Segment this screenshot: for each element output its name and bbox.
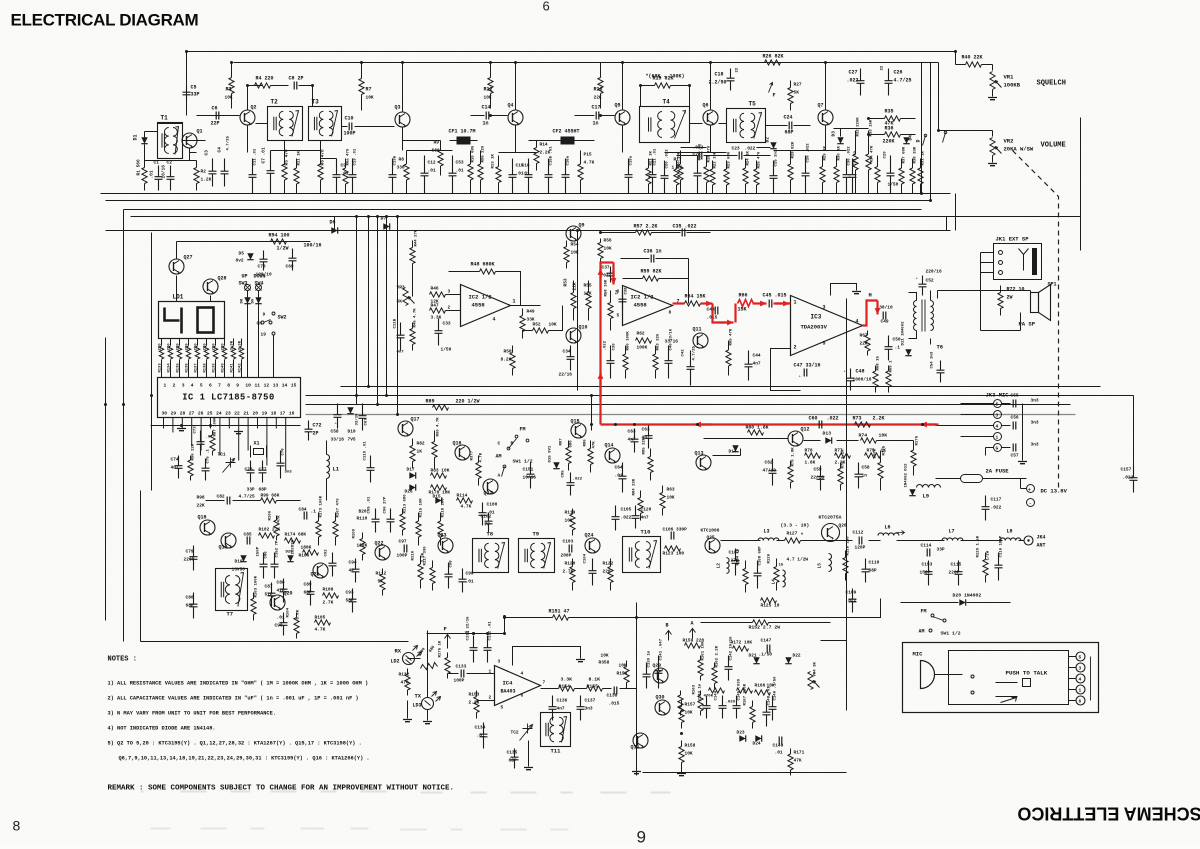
svg-text:R58 10K: R58 10K	[605, 279, 609, 296]
label 2A FUSE	[986, 468, 1010, 475]
mic box inner	[949, 651, 1069, 705]
transistor	[508, 110, 523, 125]
label 220	[195, 343, 199, 351]
svg-text:R3: R3	[226, 87, 232, 93]
capacitor	[480, 723, 488, 749]
label 680	[570, 440, 574, 448]
svg-text:R67: R67	[860, 333, 868, 339]
label 33/16	[665, 339, 679, 345]
wire	[688, 259, 690, 304]
resistor	[271, 239, 287, 244]
svg-text:C139 1n: C139 1n	[648, 650, 652, 667]
label R96 22K	[192, 443, 196, 460]
label .022	[693, 145, 704, 151]
svg-text:1: 1	[996, 435, 999, 441]
label Q7	[818, 103, 824, 109]
capacitor	[847, 369, 855, 391]
label 3n3	[285, 471, 293, 475]
wire	[515, 126, 517, 153]
label 12K	[584, 291, 592, 297]
svg-text:4n7: 4n7	[641, 515, 649, 521]
label C9	[341, 163, 347, 169]
wire	[326, 479, 328, 501]
label 4n7	[171, 465, 179, 471]
label C16a	[567, 155, 571, 165]
transformer	[309, 107, 342, 141]
inductor	[1000, 538, 1021, 541]
label C148 .01	[768, 686, 772, 706]
svg-text:C141 .047: C141 .047	[660, 638, 664, 660]
capacitor	[567, 473, 575, 496]
label X1	[254, 441, 260, 447]
svg-text:R151 47: R151 47	[549, 609, 570, 615]
label 15K	[738, 307, 747, 313]
resistor	[402, 509, 404, 515]
label JK3 MIC	[986, 392, 1010, 399]
wire	[981, 272, 994, 274]
svg-text:C10: C10	[345, 116, 354, 122]
label B	[666, 623, 669, 629]
potentiometer wiper	[408, 297, 415, 304]
wire	[176, 276, 178, 302]
wire	[1020, 313, 1022, 331]
capacitor	[459, 569, 467, 593]
junction	[486, 632, 489, 635]
svg-text:C146 .1/50: C146 .1/50	[773, 676, 778, 701]
junction	[503, 615, 506, 618]
transistor	[818, 110, 833, 125]
svg-text:.022: .022	[847, 78, 859, 84]
label R173 100K	[320, 495, 324, 517]
svg-text:10K: 10K	[484, 95, 492, 101]
wire	[326, 441, 328, 455]
wire	[151, 431, 153, 491]
label C25 2n2	[775, 149, 779, 166]
svg-text:1: 1	[1079, 688, 1082, 694]
wire	[992, 65, 994, 71]
label .01	[516, 171, 524, 177]
JK3 pin 5	[994, 400, 1002, 408]
svg-text:2: 2	[173, 383, 176, 389]
label 1.8K	[805, 460, 816, 466]
svg-text:D21: D21	[749, 653, 757, 659]
svg-text:R137: R137	[195, 363, 199, 373]
capacitor	[982, 496, 990, 521]
resistor lead	[681, 723, 683, 729]
svg-text:R128 230: R128 230	[847, 536, 851, 556]
capacitor	[397, 323, 405, 351]
wire	[992, 156, 994, 163]
svg-text:33/16: 33/16	[331, 437, 345, 443]
label R139	[213, 363, 217, 373]
capacitor	[955, 561, 963, 586]
resistor R66 15K red	[738, 300, 754, 307]
wire	[901, 134, 916, 136]
resistor	[662, 486, 664, 493]
svg-text:1: 1	[164, 383, 167, 389]
label C76	[245, 467, 253, 473]
mic connector circles	[1076, 652, 1085, 661]
svg-text:4.7 1/2W: 4.7 1/2W	[787, 557, 809, 563]
svg-text:-: -	[1029, 501, 1033, 508]
wire	[721, 540, 761, 542]
svg-text:C49: C49	[881, 319, 889, 325]
svg-text:C85: C85	[244, 532, 252, 538]
resistor	[440, 141, 442, 151]
svg-text:6: 6	[209, 383, 212, 389]
label R99 68K	[261, 493, 280, 499]
resistor	[714, 663, 716, 668]
svg-text:10K: 10K	[879, 433, 888, 439]
wire	[689, 86, 691, 107]
svg-text:CF2 455HT: CF2 455HT	[553, 129, 580, 135]
label 3.3K	[431, 315, 442, 321]
label VR4 3K	[814, 661, 818, 676]
label R47	[431, 303, 439, 309]
label D25	[286, 551, 294, 555]
wire	[275, 418, 277, 429]
svg-text:Q30: Q30	[656, 695, 665, 701]
resistor	[1000, 286, 1002, 293]
label C100	[487, 502, 498, 508]
svg-text:C55: C55	[1011, 393, 1019, 399]
capacitor	[687, 351, 695, 386]
label 10K	[225, 95, 233, 101]
svg-text:1n: 1n	[593, 121, 599, 127]
svg-text:C13 .01: C13 .01	[354, 148, 358, 165]
label SW2	[278, 315, 287, 321]
wire	[321, 158, 337, 160]
label D15	[433, 494, 441, 500]
resistor body	[911, 450, 916, 466]
red wire	[601, 263, 614, 425]
label R50	[504, 349, 512, 355]
label C53	[456, 160, 464, 166]
label 22	[736, 67, 740, 72]
transistor	[270, 595, 285, 610]
resistor	[432, 561, 434, 568]
label 5K	[794, 90, 800, 96]
svg-text:10K: 10K	[225, 95, 233, 101]
label C144	[715, 690, 719, 700]
svg-text:51P: 51P	[265, 592, 273, 598]
label *(68K - 100K)	[646, 74, 685, 80]
label 4n7	[397, 351, 405, 355]
label 4.7K	[315, 627, 326, 633]
resistor	[966, 62, 982, 67]
label C109	[846, 590, 857, 596]
label R69 1	[890, 360, 894, 373]
label R158	[685, 743, 696, 749]
svg-text:4: 4	[856, 319, 859, 325]
svg-text:B20: B20	[359, 509, 367, 515]
label 1.2K	[201, 177, 212, 183]
capacitor	[349, 159, 357, 194]
label D5	[239, 251, 245, 257]
resistor	[568, 441, 570, 448]
label 150P	[920, 570, 931, 576]
svg-text:Q14: Q14	[605, 443, 614, 449]
wire	[515, 126, 517, 141]
resistor body	[430, 568, 435, 584]
svg-text:TC2: TC2	[511, 730, 519, 736]
svg-text:10K: 10K	[571, 250, 579, 256]
label Q10	[579, 325, 588, 331]
label L3	[764, 529, 770, 535]
label C15	[516, 163, 524, 169]
label C137	[585, 698, 596, 704]
label 220/16	[926, 269, 943, 275]
label L6	[885, 525, 891, 531]
svg-text:150P: 150P	[920, 570, 931, 576]
svg-text:.022: .022	[991, 505, 1002, 511]
label D10	[348, 429, 356, 435]
ground	[677, 774, 686, 776]
svg-text:C102: C102	[481, 514, 492, 520]
svg-text:D4: D4	[908, 135, 914, 141]
svg-text:R35: R35	[885, 109, 894, 115]
resistor body	[878, 463, 883, 479]
resistor lead	[877, 183, 879, 194]
label R44 27K	[415, 229, 419, 246]
label D21	[749, 653, 757, 659]
label R10 680	[472, 145, 476, 162]
red arrow	[611, 271, 617, 285]
bus wire	[341, 386, 1101, 388]
wire	[794, 125, 811, 127]
svg-text:330: 330	[397, 165, 405, 171]
junction	[639, 84, 642, 87]
svg-text:10K: 10K	[549, 322, 557, 328]
svg-text:R32 220K: R32 220K	[857, 117, 861, 137]
svg-text:120P: 120P	[855, 545, 866, 551]
svg-text:C110: C110	[869, 560, 880, 566]
bus wire	[921, 63, 923, 194]
wire	[427, 633, 505, 635]
label 1n	[483, 121, 489, 127]
bus wire	[234, 62, 939, 64]
svg-text:C31 1n: C31 1n	[854, 150, 858, 165]
label 22K	[572, 282, 578, 290]
label R79 1.8K	[792, 447, 796, 467]
mic box outline	[903, 643, 1099, 713]
resistor body	[194, 168, 199, 184]
capacitor	[352, 559, 360, 583]
label C120	[641, 507, 652, 513]
svg-text:R127: R127	[787, 531, 798, 537]
svg-text:220: 220	[222, 343, 226, 351]
resistor	[776, 559, 778, 567]
label SP1	[1048, 282, 1057, 288]
label R163	[693, 684, 697, 694]
label R54	[571, 242, 579, 248]
label ANT	[1037, 543, 1046, 549]
label D17	[407, 467, 415, 473]
svg-text:68P: 68P	[869, 568, 877, 574]
diode	[240, 555, 246, 561]
label 33P	[247, 487, 255, 493]
svg-text:3.3K: 3.3K	[561, 677, 573, 683]
resistor body	[674, 169, 679, 185]
diode	[409, 484, 415, 490]
bus wire	[356, 217, 358, 396]
label 33P	[937, 547, 945, 553]
label SW3	[239, 281, 248, 287]
svg-text:C15b .01: C15b .01	[549, 146, 554, 166]
red wire	[863, 301, 878, 326]
wire	[869, 540, 881, 542]
wire	[849, 599, 881, 618]
label C31 1n	[854, 150, 858, 165]
svg-text:R30 1K: R30 1K	[838, 145, 842, 160]
junction	[489, 114, 492, 117]
svg-text:.01: .01	[277, 615, 285, 621]
wire	[427, 631, 429, 698]
label R132	[399, 672, 410, 678]
label 47K	[593, 441, 597, 449]
diode	[909, 489, 915, 495]
svg-text:R55: R55	[584, 283, 592, 289]
svg-text:R82: R82	[417, 441, 425, 447]
label C139 1n	[648, 650, 652, 667]
wire	[937, 291, 939, 299]
resistor	[239, 346, 243, 359]
svg-text:R126: R126	[768, 553, 772, 563]
label 1000/16	[853, 377, 872, 383]
resistor lead	[790, 180, 792, 194]
wire	[151, 425, 301, 427]
label .022	[573, 478, 583, 482]
junction	[696, 423, 699, 426]
red arrow	[695, 422, 713, 428]
resistor	[885, 132, 901, 137]
capacitor	[883, 312, 886, 320]
svg-text:+: +	[1028, 487, 1032, 494]
label 1SV50	[232, 567, 246, 573]
resistor lead	[478, 479, 480, 486]
svg-text:R94 100: R94 100	[269, 233, 290, 239]
capacitor	[333, 159, 341, 194]
svg-text:R172 10K: R172 10K	[731, 640, 753, 646]
resistor body	[698, 660, 703, 676]
capacitor	[754, 561, 762, 589]
svg-text:C6: C6	[212, 106, 218, 112]
JK3 pin G	[994, 444, 1002, 452]
resistor	[296, 159, 298, 169]
label C141 .047	[660, 638, 664, 660]
diode	[244, 297, 250, 303]
svg-text:FM: FM	[520, 427, 526, 433]
svg-text:D10: D10	[348, 429, 356, 435]
svg-text:FM: FM	[921, 609, 927, 615]
label IC3	[811, 314, 822, 321]
diode	[837, 137, 843, 143]
svg-text:IC2 1/2: IC2 1/2	[631, 294, 654, 301]
label T10	[641, 529, 651, 536]
resistor	[190, 456, 192, 461]
label 5K	[397, 299, 403, 305]
resistor body	[875, 167, 880, 183]
label Q3	[395, 105, 401, 111]
svg-text:4: 4	[1079, 677, 1082, 683]
resistor lead	[335, 537, 337, 546]
resistor lead	[728, 366, 730, 376]
junction	[104, 403, 107, 406]
svg-text:R162 2.2K: R162 2.2K	[716, 645, 720, 667]
svg-text:C77: C77	[259, 467, 267, 473]
junction	[246, 84, 249, 87]
resistor	[478, 456, 480, 463]
svg-text:220P: 220P	[949, 570, 960, 576]
svg-text:C33: C33	[443, 321, 451, 327]
label Q6	[703, 103, 709, 109]
label R76 2.2K	[842, 449, 846, 469]
resistor body	[648, 457, 653, 473]
resistor	[636, 338, 652, 343]
capacitor	[183, 87, 191, 101]
label R85 22K	[643, 437, 647, 454]
junction	[514, 61, 517, 64]
label C107	[729, 550, 740, 556]
wire	[206, 339, 208, 346]
svg-text:R109: R109	[353, 528, 357, 538]
wire	[241, 339, 243, 346]
resistor body	[726, 350, 731, 366]
svg-text:68P: 68P	[186, 603, 194, 609]
label R67	[860, 333, 868, 339]
svg-text:10K: 10K	[601, 653, 609, 659]
junction	[150, 394, 153, 397]
label C138	[607, 693, 618, 699]
label 10K	[549, 322, 557, 328]
wire	[869, 118, 885, 120]
svg-text:R72 10: R72 10	[1007, 287, 1025, 293]
wire	[983, 478, 1027, 480]
svg-text:R74: R74	[859, 433, 868, 439]
svg-text:R171: R171	[794, 750, 805, 756]
resistor lead	[700, 711, 702, 716]
junction	[367, 215, 370, 218]
svg-text:4: 4	[191, 383, 194, 389]
svg-text:Q11: Q11	[693, 327, 702, 333]
svg-text:C119 .01: C119 .01	[364, 441, 368, 461]
label C44	[753, 353, 761, 359]
junction	[396, 215, 399, 218]
label L5	[817, 563, 823, 569]
junction	[688, 84, 691, 87]
svg-text:C57: C57	[1011, 453, 1019, 459]
inductor	[327, 455, 330, 479]
resistor	[323, 593, 339, 598]
svg-text:Q17: Q17	[411, 417, 420, 423]
label C58	[862, 465, 870, 471]
resistor lead	[600, 94, 602, 109]
label R108	[323, 587, 334, 593]
transformer	[473, 539, 509, 573]
label C35 .022	[673, 224, 697, 230]
resistor lead	[745, 184, 747, 194]
transistor	[395, 112, 410, 127]
svg-text:15: 15	[779, 564, 784, 568]
resistor lead	[231, 94, 233, 109]
svg-text:C112: C112	[853, 530, 864, 536]
svg-text:15: 15	[291, 383, 297, 389]
svg-text:2.2K: 2.2K	[873, 416, 885, 422]
wire	[342, 126, 348, 128]
inductor	[783, 570, 786, 587]
label R171	[794, 750, 805, 756]
mic wires	[935, 657, 1091, 701]
